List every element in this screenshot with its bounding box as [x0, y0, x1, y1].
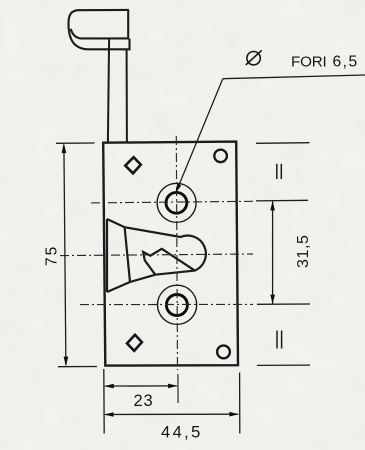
dim 75 bottom extension line [58, 366, 97, 368]
bottom-right small hole [217, 346, 230, 359]
keyhole horizontal centerline [60, 254, 253, 256]
keyhole wedge [106, 219, 108, 292]
lever bar [108, 39, 109, 143]
dim 31,5 line [272, 202, 274, 304]
dim 31,5 top extension line [256, 199, 308, 202]
top hole outer circle [157, 183, 196, 222]
dim 23 right arrow [168, 384, 178, 389]
bottom diamond [127, 335, 142, 351]
leader arrowhead [176, 184, 182, 193]
dim 75 line [64, 145, 66, 366]
dim 44,5 right extension line [239, 373, 241, 434]
diameter symbol [246, 50, 262, 65]
svg-text:FORI: FORI [291, 54, 326, 71]
keyhole notch zigzag [143, 249, 195, 275]
leader line to hole [176, 79, 223, 192]
dim 31,5 top arrow [270, 201, 275, 211]
svg-text:31,5: 31,5 [295, 234, 312, 268]
bottom hole outer circle [158, 285, 197, 324]
dim 31,5 bottom extension line [257, 303, 310, 305]
dim 44,5 left arrow [104, 412, 114, 417]
wedge bend line [125, 227, 130, 282]
svg-text:6,5: 6,5 [333, 54, 359, 71]
dim 31,5 bottom arrow [270, 295, 275, 305]
top diamond [125, 157, 141, 173]
vertical centerline solid extension below plate [177, 374, 179, 403]
top-right small hole [214, 150, 227, 163]
leader underline [223, 75, 365, 79]
dim 75 bottom arrow [64, 357, 69, 367]
dim 23/44,5 left extension line [103, 369, 105, 434]
svg-text:75: 75 [44, 245, 61, 266]
plate outline [103, 142, 238, 366]
keyhole outline [107, 219, 206, 292]
right top edge extension line [256, 142, 310, 145]
dim 75 top extension line [56, 142, 95, 144]
dim 23 line [105, 385, 177, 387]
equality mark top [277, 164, 282, 179]
svg-text:23: 23 [134, 392, 154, 410]
top hole horizontal centerline [91, 201, 253, 203]
top hole inner circle [166, 192, 187, 213]
hook handle inner [71, 10, 129, 39]
vertical centerline [176, 136, 177, 370]
right bottom edge extension line [257, 364, 310, 366]
equality mark bottom [277, 331, 282, 349]
dim 44,5 line [105, 413, 238, 415]
dim 44,5 right arrow [229, 412, 239, 417]
bottom hole horizontal centerline [80, 303, 253, 305]
bottom hole inner circle [166, 295, 187, 316]
svg-text:44,5: 44,5 [161, 424, 203, 442]
dim 23 left arrow [104, 384, 114, 389]
hook handle outer [69, 10, 130, 49]
dim 75 top arrow [62, 143, 67, 153]
